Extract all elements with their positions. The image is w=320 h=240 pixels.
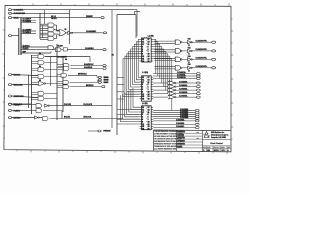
wire rows from risers to U11: [117, 77, 124, 99]
nand-gate U13D: [175, 66, 180, 71]
svg-text:PWR/ON: PWR/ON: [103, 131, 111, 133]
svg-text:B/CLOCK: B/CLOCK: [84, 117, 92, 119]
wire: [70, 81, 98, 83]
zone ticks bottom: [17, 150, 227, 155]
bus wire C: [56, 44, 58, 120]
and-gate U8C: [36, 109, 42, 113]
and-gate U8A: [36, 104, 42, 108]
svg-text:CHECKED: CHECKED: [177, 135, 184, 137]
and-gate U1A: [48, 23, 54, 27]
and-gate U1B: [48, 28, 54, 32]
buffer U14B: [188, 49, 192, 52]
sheet connector CLOAD/AT-: [195, 127, 199, 129]
sheet connector CLOAD/S2-: [196, 89, 200, 91]
title block outline: [154, 130, 232, 151]
sheet connector CLOAD/D1-: [195, 111, 199, 113]
buffer U8B: [45, 104, 48, 107]
input connector P9 PL/ENP: [8, 103, 11, 105]
bus wire B: [18, 28, 20, 55]
wire net B/CLOCK: [50, 118, 124, 120]
svg-text:U2: U2: [65, 29, 67, 31]
wire gate inputs: [40, 37, 48, 39]
svg-text:CLR/CLK: CLR/CLK: [23, 45, 31, 47]
wire: [182, 41, 187, 43]
input connector P1 CLOAD/INV: [8, 9, 11, 11]
sheet connector CLOAD/LD: [103, 49, 106, 51]
sheet connector CLOAD/D3-: [195, 115, 199, 117]
svg-text:PWR/UP: PWR/UP: [86, 16, 94, 18]
sheet connector CLOAD/D6-: [195, 123, 199, 125]
nand-gate U4C: [38, 68, 44, 72]
input connector P11 ENT/INV: [8, 117, 11, 119]
buffer U2B: [68, 31, 72, 34]
xor-gate U15A: [169, 81, 175, 84]
wire net SLAVE/LD out: [71, 68, 103, 70]
sheet connector CLOAD/S0-: [196, 82, 200, 84]
wire net ENLD: [12, 17, 100, 19]
zone ticks top: [19, 3, 229, 6]
svg-text:U6: U6: [65, 59, 67, 61]
xor-gate U15C: [169, 88, 175, 91]
wire gate inputs: [40, 32, 48, 34]
bus wire D: [62, 57, 64, 113]
IC U11 pins: [140, 77, 154, 99]
svg-text:DWG NO: DWG NO: [214, 147, 219, 149]
svg-text:SIZE: SIZE: [203, 147, 206, 149]
svg-text:CLOAD/OUT2-: CLOAD/OUT2-: [196, 57, 208, 60]
svg-text:10: 10: [148, 61, 150, 63]
wire net PL/CLOCK: [49, 105, 112, 107]
wire bus feed verticals: [39, 23, 41, 40]
title block divider 3: [203, 138, 232, 140]
buffer U14C: [188, 58, 192, 61]
wire net CLOAD/INV: [12, 9, 112, 11]
input connector P8 EN/SLAVE: [8, 103, 11, 105]
wire rows from risers to U12: [117, 110, 140, 124]
bus staircase into U12: [120, 88, 139, 122]
bus wire E: [31, 55, 33, 114]
svg-text:U1 9-2: U1 9-2: [51, 16, 56, 18]
wire riser net1: [111, 10, 113, 128]
svg-text:102263: 102263: [214, 150, 219, 152]
svg-text:L-2 (09): L-2 (09): [148, 36, 154, 38]
input connector P3 ENLD: [8, 17, 11, 19]
wire: [96, 75, 98, 77]
wire: [12, 35, 19, 37]
nand-gate U7B: [63, 85, 69, 89]
sheet connector ENB/B: [98, 79, 101, 81]
net label CLR/LD tap: [21, 49, 56, 51]
wire nor out: [45, 83, 57, 85]
and-gate U1C: [48, 32, 54, 36]
IC U10 pins: [140, 39, 154, 61]
nand-gate U4D: [38, 75, 44, 79]
or-gate U2A: [59, 30, 66, 36]
nand-gate U13C: [175, 57, 180, 62]
wire: [12, 103, 32, 105]
sheet connector CLOAD/D4-: [195, 117, 199, 119]
input connector P5 BD/CLK: [8, 74, 11, 76]
wire net CLOAD/LD: [67, 49, 102, 51]
sheet connector CLOAD/Q0-: [196, 73, 200, 75]
net label CLR/CLK tap: [21, 46, 48, 48]
sheet connector CLOAD/ABC: [103, 32, 106, 34]
wire jog2: [117, 14, 136, 16]
wire fan right of U10: [153, 39, 172, 110]
wire: [54, 47, 56, 50]
title block divider 2: [202, 130, 204, 151]
wire: [192, 67, 212, 69]
nand-gate U3B: [56, 48, 62, 52]
svg-text:7 OF 9: 7 OF 9: [221, 150, 226, 152]
wire: [192, 58, 212, 60]
net label CLOAD/LN tap: [21, 33, 36, 35]
nand-gate U13A: [175, 40, 180, 45]
nand-gate U13B: [175, 49, 180, 54]
svg-text:8/81: 8/81: [197, 138, 200, 140]
svg-text:U5: U5: [39, 80, 41, 82]
nand-gate U3A: [48, 46, 53, 50]
svg-text:18: 18: [142, 129, 144, 131]
svg-text:L-2 (11): L-2 (11): [142, 103, 148, 105]
wire: [182, 50, 187, 52]
wire gate feeds: [155, 41, 175, 69]
wire gate outs col A: [45, 57, 57, 99]
nand-gate U5B: [38, 92, 44, 96]
svg-text:SLAVE/CLK: SLAVE/CLK: [84, 63, 94, 66]
svg-text:9-2: 9-2: [23, 13, 25, 15]
wire net CLOAD/ABC: [72, 32, 103, 34]
wire and outputs to or: [54, 24, 57, 26]
wire: [12, 109, 36, 111]
wire: [192, 50, 212, 52]
bus wire A: [20, 18, 22, 55]
svg-text:8/81: 8/81: [207, 150, 210, 152]
nand-gate U6C: [61, 73, 67, 77]
input connector P2 CLOAD/CLK: [8, 12, 11, 14]
wire: [12, 103, 36, 105]
bus wire F: [28, 75, 30, 109]
nand-gate U6B: [64, 67, 70, 71]
net label CLOAD/INV tap: [21, 30, 36, 32]
sheet connector PWR/ON: [98, 130, 101, 132]
net label CLOAD/INV line: [45, 56, 90, 58]
input connector P6 EN/CLEAR: [8, 84, 11, 86]
wire: [66, 32, 68, 34]
nand-gate U6A: [64, 64, 69, 68]
title block divider 1: [176, 130, 178, 151]
svg-text:8/81: 8/81: [197, 132, 200, 134]
company logo: [204, 131, 209, 137]
input connector P10 PL/ENT: [8, 109, 11, 111]
svg-text:ENB/B: ENB/B: [104, 80, 110, 82]
svg-text:10: 10: [148, 99, 150, 101]
sheet connector CLOAD/OUT1-: [212, 50, 216, 52]
wire net MSTR/CLK: [68, 74, 97, 76]
svg-text:Clock Control: Clock Control: [210, 142, 223, 145]
svg-text:MSTR/LD: MSTR/LD: [86, 85, 94, 87]
sheet connector CLOAD/S3-: [196, 93, 200, 95]
nand-gate U7A: [63, 80, 69, 84]
svg-text:PL/CLK1: PL/CLK1: [64, 104, 71, 106]
svg-text:CLOAD/OUT0-: CLOAD/OUT0-: [196, 40, 208, 43]
wire: [192, 41, 212, 43]
svg-text:CLOAD/OUT1-: CLOAD/OUT1-: [196, 48, 208, 51]
nand-gate U5C: [38, 97, 44, 101]
wire net SLAVE/CLK out: [71, 65, 103, 67]
nor-gate U5A: [38, 82, 44, 86]
svg-text:CLR/LD: CLR/LD: [23, 48, 30, 50]
svg-text:SHEET: SHEET: [221, 147, 225, 149]
sheet connector CLOAD/S1-: [196, 86, 200, 88]
svg-text:L-2 (10): L-2 (10): [142, 72, 148, 74]
xor-gate U15D: [169, 92, 175, 95]
svg-text:EN/CLEAR-: EN/CLEAR-: [14, 83, 24, 86]
sheet connector SLAVE/LD: [103, 68, 106, 70]
svg-text:10: 10: [148, 129, 150, 131]
wire feeds: [57, 64, 64, 66]
wire: [12, 75, 38, 76]
zone ticks right: [231, 19, 233, 139]
sheet connector MSTR/CLK: [98, 76, 101, 78]
IC U12 74LS164: [142, 106, 152, 130]
sheet connector CLOAD/D2-: [195, 113, 199, 115]
IC U10 74LS164: [142, 38, 152, 62]
wire gate feeds col A: [32, 56, 39, 100]
wire: [12, 117, 42, 119]
bus wire G: [50, 57, 52, 87]
sheet connector SLAVE/CLK: [103, 65, 106, 67]
buffer U9A: [35, 116, 38, 119]
bus staircase U10 to U11: [123, 39, 140, 96]
sheet connector CLOAD/OUT2-: [212, 58, 216, 60]
sheet connector CLOAD/D5-: [195, 120, 199, 122]
wire: [182, 67, 187, 69]
svg-text:ISSUED: ISSUED: [177, 146, 182, 148]
and-gate U4B: [38, 61, 44, 65]
svg-text:B/CLK1: B/CLK1: [64, 117, 70, 119]
title block divider 4: [203, 145, 232, 147]
zone ticks left: [3, 18, 5, 138]
wire: [12, 96, 38, 98]
wire branch: [69, 10, 71, 44]
title fields grid: [203, 146, 232, 152]
wire label row feeds: [153, 74, 196, 128]
and-gate U1D: [48, 37, 54, 41]
IC U12 pins: [140, 107, 154, 129]
wire jog: [112, 9, 137, 11]
svg-text:18: 18: [142, 99, 144, 101]
input connector P4: [8, 35, 11, 37]
sheet connector CLOAD/D0-: [195, 109, 199, 111]
xor-gate U15B: [169, 85, 175, 88]
wire: [89, 57, 91, 63]
sheet connector MSTR/LD: [102, 86, 105, 88]
wire: [182, 58, 187, 60]
svg-text:18: 18: [142, 61, 144, 63]
buffer U14D: [188, 66, 192, 69]
sheet connector CLOAD/Q2-: [196, 77, 200, 79]
wire: [88, 130, 98, 132]
wire riser net2: [116, 15, 118, 136]
wire junction drop: [44, 10, 46, 25]
svg-text:MSTR/CLK: MSTR/CLK: [78, 74, 87, 76]
svg-text:CLOAD/OUT3-: CLOAD/OUT3-: [196, 65, 208, 68]
sheet connector CLOAD/OUT3-: [212, 67, 216, 69]
border frame: [4, 5, 231, 151]
wire gate inputs: [40, 28, 48, 30]
IC U10 top stubs: [144, 37, 146, 38]
wire: [12, 83, 38, 85]
xor-gate U15E: [169, 95, 175, 98]
sheet connector CLOAD/OUT0-: [212, 41, 216, 43]
sheet connector CLOAD/S4-: [196, 96, 200, 98]
svg-text:ENB/C: ENB/C: [104, 82, 110, 84]
svg-text:CLOAD/ABC: CLOAD/ABC: [86, 30, 97, 33]
wire gate inputs: [40, 23, 48, 25]
wire: [43, 110, 62, 112]
svg-text:PL/CLOCK: PL/CLOCK: [84, 104, 93, 106]
svg-text:CLOAD/INV-: CLOAD/INV-: [14, 9, 24, 12]
input connector P7 EN/STROBE: [8, 95, 11, 97]
and-gate U4A: [38, 55, 44, 59]
buffer U14A: [188, 41, 192, 44]
sheet connector PWR/UP: [101, 17, 104, 19]
sheet connector CLOAD/Q1-: [196, 75, 200, 77]
sign-off table rules: [177, 133, 203, 148]
net label tap row A: [21, 19, 36, 21]
wire net CLOAD/CLK: [12, 12, 70, 14]
svg-text:SLAVE/LD: SLAVE/LD: [84, 66, 93, 69]
inverter box U3C: [63, 48, 67, 51]
svg-text:CLOAD/LD: CLOAD/LD: [85, 47, 94, 50]
svg-text:DSD Machines Inc.: DSD Machines Inc.: [211, 132, 225, 134]
svg-text:CLOAD/INV: CLOAD/INV: [57, 55, 68, 58]
net label ENP tap: [21, 52, 51, 54]
IC U11 74LS164: [142, 76, 152, 101]
net label tap row B: [21, 22, 36, 24]
svg-text:REV: REV: [228, 147, 231, 149]
nand-gate U9B: [43, 117, 48, 121]
sheet connector ENB/C: [98, 81, 101, 83]
